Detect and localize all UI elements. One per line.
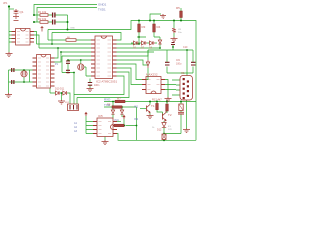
capacitor C10 [191, 62, 196, 65]
svg-text:R4: R4 [157, 25, 161, 29]
wire diode chain [131, 42, 157, 44]
node gnd stub rail [149, 20, 151, 22]
wire RC right link [67, 15, 69, 30]
wire top gnd stub [150, 14, 161, 21]
capacitor C9 [165, 62, 170, 65]
IC5 8-pin bottom [93, 118, 117, 137]
wire mcu right y56 [117, 50, 149, 56]
node txd d8 [121, 106, 123, 108]
wire vcc R leads [180, 8, 182, 21]
wire RC row2 [34, 21, 68, 23]
svg-text:GND: GND [70, 28, 75, 30]
wire txd diode drop [121, 107, 123, 117]
capacitor C11 feed [171, 43, 175, 45]
wire tvs run [50, 88, 70, 104]
wire mcu right y64 [117, 64, 143, 80]
wire mcu right y52 [117, 51, 155, 53]
supply arrow r9 [123, 116, 125, 120]
wire DB9 shield down [186, 100, 188, 129]
node xtal bottom [67, 72, 69, 74]
wire tvs gnd drop [61, 93, 63, 100]
node xtal cap top [67, 59, 69, 61]
wire sv pins up [74, 73, 77, 105]
wire txd vertical [136, 107, 138, 140]
svg-text:TXD: TXD [104, 103, 111, 107]
wire r9 net [124, 119, 137, 126]
node rst busA [51, 43, 53, 45]
diode D6 left [146, 60, 149, 68]
svg-text:IN1: IN1 [134, 105, 139, 109]
supply arrow ic5 [85, 113, 87, 117]
wire DB9 top feed [186, 50, 188, 76]
node bottom dot [163, 139, 165, 141]
wire bottom mid rail [164, 133, 181, 135]
diode D2 [142, 41, 148, 45]
node r12 rail [156, 101, 158, 103]
wire IC1 left pins [9, 32, 12, 43]
ground IC2 right [165, 97, 172, 102]
node r3 y44 [138, 43, 140, 45]
svg-text:D10 D11: D10 D11 [55, 88, 65, 91]
ground ic5 [102, 140, 109, 145]
capacitor C8 reset [172, 28, 176, 33]
wire ic5 left rail [86, 116, 93, 134]
svg-text:TXD1: TXD1 [98, 8, 106, 12]
wire rxd [104, 101, 196, 103]
capacitor C2 row2 [53, 20, 55, 25]
ground t1 [147, 115, 154, 119]
ground tvs [58, 100, 65, 104]
relay K1 [178, 104, 184, 114]
wire IC2 right gnd [165, 80, 168, 98]
ground left rail [6, 52, 13, 57]
wire t1 base [140, 108, 147, 110]
node tvs mid [61, 92, 63, 94]
node txd vert [136, 125, 138, 127]
ground reset cap [171, 37, 178, 42]
ground mcu cap [87, 88, 94, 92]
node bus row1 [33, 14, 35, 16]
svg-text:JP1: JP1 [3, 1, 8, 5]
node t1 rail [149, 101, 151, 103]
svg-text:VCC: VCC [114, 119, 119, 122]
node r4 top [153, 20, 155, 22]
ground top right [160, 14, 166, 19]
svg-text:R2 10k: R2 10k [38, 17, 47, 21]
wire r13 leads [166, 102, 168, 114]
node r5 rail [180, 20, 182, 22]
node y48 ic4 [57, 47, 59, 49]
diode D12 bottom [162, 134, 166, 140]
wire bus A [48, 21, 196, 141]
wire crystal feed [9, 8, 14, 10]
resistor R6 rst [66, 39, 76, 42]
svg-text:R1 10k: R1 10k [38, 10, 47, 14]
capacitor C3 xtal left [12, 68, 14, 72]
wire bus B [52, 33, 121, 41]
svg-text:D12: D12 [157, 129, 162, 132]
node xtal top [80, 59, 82, 61]
wire t1 collector [149, 102, 151, 105]
capacitor C1 row1 [53, 13, 55, 18]
transistor T2 [163, 111, 167, 121]
wire rxd diode drop [112, 102, 114, 119]
wire IC4 left xtal [9, 70, 33, 93]
IC1 8-pin [12, 29, 35, 46]
resistor R3 rail [138, 24, 141, 32]
wire left rail [8, 7, 10, 53]
svg-text:IN2: IN2 [134, 117, 139, 121]
resistor R4 rail [153, 24, 156, 32]
wire MCU rst [48, 30, 91, 45]
svg-text:R3: R3 [142, 25, 146, 29]
resistor R8 txd [112, 106, 122, 109]
svg-text:100u: 100u [176, 63, 182, 66]
resistor R12 [156, 103, 159, 109]
wire ic5 pin4 drop [117, 134, 121, 141]
node mid rail dot [163, 133, 165, 135]
wire cap rail feed [148, 44, 173, 60]
wire mcu right y60 [117, 60, 149, 65]
wire mcu right y48 [117, 47, 161, 49]
resistor R5 vcc [180, 11, 183, 18]
wire r12 leads [157, 102, 163, 117]
svg-text:X1: X1 [181, 71, 185, 75]
node xtal4 a [23, 69, 25, 71]
wire txd [104, 106, 137, 108]
svg-text:R7: R7 [117, 97, 121, 101]
diode D11 tvs [63, 91, 68, 95]
wire mcu right y72 [77, 72, 129, 98]
capacitor C4 xtal left [12, 80, 14, 84]
crystal Q1 [13, 9, 19, 21]
wire diode D4 leads [159, 37, 161, 48]
diode D3 [150, 41, 156, 45]
wire mcu right y68 [117, 68, 143, 85]
svg-text:MAX232: MAX232 [146, 73, 158, 77]
node rxd d7 [112, 101, 114, 103]
wire mcu xtal crystal leads [81, 60, 91, 76]
node r13 rail [166, 101, 168, 103]
wire relay drop [180, 102, 182, 134]
wire r rail resistor leads [139, 21, 160, 45]
connector X1 DB9 [180, 76, 193, 101]
crystal Q2 left [21, 71, 27, 77]
IC3 8-pin max [142, 77, 165, 94]
wire mcu vcc cap leads [89, 79, 91, 88]
connector SV1 [68, 104, 79, 111]
svg-text:100n: 100n [94, 84, 100, 87]
wire ic5 gnd stub [104, 137, 106, 141]
svg-text:12V: 12V [168, 129, 172, 131]
svg-text:IC2 AT89C2051: IC2 AT89C2051 [96, 80, 117, 84]
diode D4 vertical [158, 40, 161, 44]
wire t2 emitter chain [163, 121, 165, 140]
wire left diode lower [142, 68, 148, 80]
node cap rail [172, 46, 174, 48]
diode D8 [120, 110, 123, 114]
wire IC1 right pin drops [30, 32, 39, 49]
wire IC4 xtal crystal leads [24, 70, 30, 82]
node top left [8, 5, 10, 7]
diode D1 [134, 41, 140, 45]
wire bottom rail [121, 139, 196, 141]
wire t1 emitter gnd [149, 113, 151, 115]
svg-text:T2: T2 [168, 113, 172, 117]
node xtal4 b [23, 81, 25, 83]
wire IC2 to DB9 [165, 85, 176, 90]
node xtal sv [73, 72, 75, 74]
resistor R9 ic5 out [114, 124, 124, 127]
wire IC4 right up [55, 48, 62, 62]
node rc busA [67, 29, 69, 31]
node rc link [67, 21, 69, 23]
crystal Q3 mcu [78, 64, 84, 70]
wire mcu right y44 [117, 37, 147, 44]
svg-text:GND1: GND1 [98, 3, 107, 7]
svg-text:IC5: IC5 [98, 114, 103, 118]
svg-text:RXD: RXD [104, 98, 111, 102]
wire reset cap leads [173, 21, 175, 38]
ground db9 shield [183, 129, 190, 133]
svg-text:T1: T1 [151, 104, 155, 108]
wire RC row1 [34, 14, 68, 16]
wire mcu xtal rails [62, 56, 91, 73]
node bus row2 [33, 21, 35, 23]
diode D7 [111, 110, 114, 114]
diode D10 tvs [56, 91, 61, 95]
wire top bus outer [34, 5, 97, 16]
node relay rail [180, 101, 182, 103]
node reset cap top [173, 20, 175, 22]
svg-text:R12 4k7: R12 4k7 [152, 98, 162, 102]
resistor R1 row1 [40, 14, 48, 17]
node r9 vcc [124, 125, 126, 127]
capacitor C6 mcu xtal [66, 70, 70, 72]
capacitor C5 mcu xtal [66, 61, 70, 63]
node db9 feed [186, 49, 188, 51]
capacitor C7 vcc [88, 83, 92, 86]
svg-text:C10: C10 [183, 46, 188, 49]
wire MCU left feeds [37, 44, 92, 52]
wire ic5 right pin1 [117, 121, 121, 123]
supply symbol top [41, 27, 44, 32]
resistor R7 rxd [115, 100, 125, 103]
ground xtal left [5, 93, 12, 98]
wire mcu xtal cap leads [67, 60, 69, 73]
wire DB9 left pins [172, 80, 180, 95]
resistor R2 row2 [40, 21, 48, 24]
node r3 y37 [138, 36, 140, 38]
wire cap rail [167, 50, 193, 73]
svg-text:R5: R5 [176, 6, 180, 10]
node y52 ic4 [60, 51, 62, 53]
svg-text:Q1: Q1 [20, 10, 24, 14]
wire mcu right y76 [74, 76, 124, 95]
diode D9 [162, 123, 166, 128]
MCU IC2 20-pin [91, 36, 117, 79]
transistor T1 [147, 105, 151, 114]
svg-text:C9: C9 [176, 58, 180, 62]
wire top bus inner [37, 8, 97, 23]
IC4 16-pin [33, 55, 55, 89]
node d4 y48 [159, 47, 161, 49]
resistor R13 [166, 104, 169, 111]
node r3 top [138, 20, 140, 22]
